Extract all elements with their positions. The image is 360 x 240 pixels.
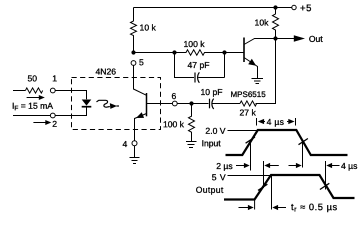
node top-rail junction: [273, 5, 277, 9]
dimension left-arrow line after 263: [270, 165, 279, 167]
ground pin4: [130, 158, 140, 164]
waveform section: [224, 118, 355, 210]
svg-text:1: 1: [52, 73, 57, 83]
resistor R6 100k (vertical): [189, 104, 195, 142]
arrowhead left-point at 263: [264, 163, 270, 168]
current arrow IF top: [27, 97, 40, 99]
svg-text:5 V: 5 V: [212, 172, 226, 182]
pin 4 terminal: [132, 141, 137, 146]
tick input fall mid: [302, 141, 304, 168]
resistor R4 10k (right, vertical): [273, 8, 279, 39]
terminal +5: [292, 5, 296, 9]
wire to Q2 base: [225, 52, 244, 54]
node 100k-right junction: [222, 50, 226, 54]
wire Out: [278, 38, 295, 40]
output waveform trapezoid: [224, 175, 355, 200]
arrowhead 4us left: [258, 119, 264, 124]
tick tr right: [271, 175, 273, 210]
resistor R3 100k (horizontal top): [175, 50, 223, 55]
input waveform trapezoid: [226, 130, 348, 155]
svg-text:+5: +5: [300, 3, 312, 14]
svg-text:4 µs: 4 µs: [341, 161, 357, 171]
dimension right-arrow line before 302: [289, 165, 297, 167]
slash input rising: [246, 137, 255, 143]
pin 1 terminal: [50, 88, 55, 93]
capacitor C2 10pF: [193, 103, 209, 105]
dimension 4us arrow lines: [264, 121, 289, 123]
wire pin6 to node: [177, 103, 189, 105]
wire LED cathode to pin2: [55, 107, 86, 115]
svg-text:5: 5: [139, 57, 144, 67]
dimension 4us ticks: [257, 118, 296, 126]
arrowhead tr left-point: [272, 205, 278, 210]
svg-text:MPS6515: MPS6515: [231, 90, 267, 99]
tick input rise mid: [250, 140, 252, 171]
svg-text:tr ≈ 0.5 µs: tr ≈ 0.5 µs: [291, 202, 338, 214]
tick output fall mid: [325, 161, 327, 190]
pin 5 terminal: [131, 61, 136, 66]
wire emitter lead: [135, 114, 147, 141]
svg-text:10k: 10k: [255, 18, 270, 28]
emitter arrow Q2: [248, 59, 256, 66]
wire pin5 collector lead: [134, 65, 147, 95]
svg-text:IF = 15 mA: IF = 15 mA: [12, 101, 53, 113]
node collector junction: [273, 36, 277, 40]
wire pin4 to ground: [134, 146, 136, 158]
arrowhead left-point at 325: [326, 163, 332, 168]
svg-text:2.0 V: 2.0 V: [205, 126, 225, 136]
transistor Q2 MPS6515 bar: [243, 38, 245, 63]
resistor R5 27k (horizontal): [240, 101, 276, 106]
wire base lead pin6: [147, 103, 173, 105]
wire 5V reference line: [228, 175, 272, 177]
svg-text:10 pF: 10 pF: [201, 87, 223, 97]
svg-text:10 k: 10 k: [140, 22, 157, 32]
svg-text:50: 50: [28, 73, 38, 83]
light arrow squiggle: [97, 100, 110, 107]
tick tr left: [254, 201, 256, 210]
wire pin5 node to 100k node: [134, 52, 175, 54]
wire Q2 emitter: [244, 58, 258, 79]
arrowhead right-point at 302: [296, 163, 302, 168]
optocoupler U1 phototransistor bar: [146, 93, 148, 116]
svg-text:4N26: 4N26: [96, 66, 117, 76]
tick output rise mid: [263, 161, 265, 188]
pin 2 terminal: [50, 113, 55, 118]
pin 6 terminal: [172, 101, 177, 106]
wire pin1 to LED: [55, 91, 86, 100]
slash output falling: [320, 183, 329, 189]
current arrow bottom: [33, 122, 46, 124]
dimension 2us arrow line: [236, 165, 244, 167]
resistor R1 10k (left, vertical): [131, 8, 137, 53]
svg-text:2: 2: [52, 119, 57, 129]
resistor R2 50 ohm: [25, 88, 42, 93]
svg-text:100 k: 100 k: [184, 39, 206, 49]
ground R6: [186, 142, 197, 148]
arrowhead tr right-point: [248, 205, 254, 210]
wire top rail: [134, 7, 292, 9]
node pin6 junction: [189, 101, 193, 105]
svg-text:6: 6: [172, 91, 177, 101]
wire input bottom: [13, 115, 50, 117]
dimension left-arrow line after 325: [332, 165, 340, 167]
svg-text:4 µs: 4 µs: [267, 117, 285, 127]
capacitor C1 47pF branch: [175, 53, 195, 78]
svg-text:Out: Out: [309, 34, 323, 44]
wire collector node down: [256, 39, 276, 104]
arrowhead 4us right: [288, 119, 294, 124]
svg-text:27 k: 27 k: [239, 108, 256, 118]
svg-text:47 pF: 47 pF: [188, 60, 210, 70]
wire input top: [13, 90, 25, 92]
ground Q2 emitter: [252, 79, 264, 84]
emitter arrow U1: [136, 112, 144, 118]
labels circuit: [12, 3, 323, 149]
svg-text:Input: Input: [202, 138, 222, 148]
wire 2.0V reference line: [228, 130, 259, 132]
slash input falling: [299, 139, 308, 145]
slash output rising: [258, 184, 267, 190]
dimension tr arrow lines: [239, 207, 287, 209]
wire Q2 collector: [244, 39, 274, 45]
arrowhead 2us right-point: [244, 163, 250, 168]
svg-text:2 µs: 2 µs: [216, 161, 232, 171]
4N26 dashed package box: [72, 78, 161, 130]
svg-text:4: 4: [122, 139, 127, 149]
node 100k-left junction: [172, 50, 176, 54]
LED D1: [82, 100, 92, 106]
svg-text:Output: Output: [196, 185, 224, 195]
node pin5 junction: [131, 50, 135, 54]
svg-text:100 k: 100 k: [163, 119, 185, 129]
